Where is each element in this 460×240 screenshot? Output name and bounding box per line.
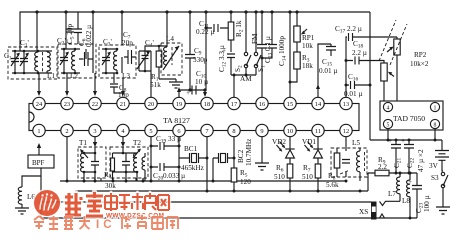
svg-text:T2: T2 <box>133 139 141 147</box>
capacitor C23 100u <box>412 173 422 218</box>
svg-text:15: 15 <box>287 101 293 108</box>
battery 3V <box>441 140 443 150</box>
wire tank top link <box>145 46 167 97</box>
svg-text:5.6k: 5.6k <box>326 181 339 189</box>
pin 4 <box>117 124 129 136</box>
svg-text:47 µ ×2: 47 µ ×2 <box>417 149 425 172</box>
capacitor C16 0.01u <box>346 81 370 89</box>
pin 22 <box>89 97 101 109</box>
svg-text:1: 1 <box>434 106 437 112</box>
wire pin6 drop <box>178 137 180 181</box>
wire TAD outputs down <box>388 129 435 141</box>
svg-text:0.01 µ: 0.01 µ <box>319 67 338 75</box>
svg-text:FM: FM <box>251 33 259 44</box>
svg-text:30k: 30k <box>105 182 116 190</box>
capacitor C4' variable <box>137 51 151 71</box>
inductor L4 tunable <box>161 12 182 75</box>
capacitor C9 330p <box>185 55 195 59</box>
svg-text:13: 13 <box>343 101 349 108</box>
pin 19 <box>173 97 185 109</box>
node ground bus A <box>60 180 346 182</box>
svg-text:+: + <box>388 137 392 145</box>
svg-text:1: 1 <box>37 128 40 135</box>
pin 3 <box>89 124 101 136</box>
potentiometer RP2b <box>383 62 385 102</box>
capacitor C17 2.2u <box>349 33 398 41</box>
svg-text:4: 4 <box>387 106 390 112</box>
pin 9 <box>256 124 268 136</box>
svg-text:RP1: RP1 <box>302 34 315 42</box>
svg-text:10: 10 <box>287 128 293 135</box>
potentiometer RP1 10k <box>296 12 298 52</box>
svg-text:510: 510 <box>274 173 285 181</box>
wire switch common to pin17 <box>231 75 256 97</box>
diode VD1 <box>317 137 319 164</box>
pin 16 <box>256 97 268 109</box>
wire BPF down <box>22 168 41 218</box>
capacitor C14 1000p <box>262 12 277 58</box>
watermark big chars halo <box>65 192 103 216</box>
svg-text:0.022 µ: 0.022 µ <box>85 25 93 47</box>
wire arrow up from pin19 <box>178 90 180 97</box>
svg-text:VD1: VD1 <box>302 138 316 146</box>
svg-text:20: 20 <box>148 101 154 108</box>
svg-text:9: 9 <box>260 128 263 135</box>
wire pin3 arrow into T1 <box>94 137 96 143</box>
inductor L5 boxed <box>331 137 367 181</box>
connector XS jack <box>371 202 377 220</box>
svg-text:11: 11 <box>315 128 321 135</box>
svg-text:2.2: 2.2 <box>378 163 387 171</box>
watermark big chars <box>65 192 103 216</box>
pin 6 <box>173 124 185 136</box>
svg-text:22: 22 <box>92 101 98 108</box>
pin 20 <box>145 97 157 109</box>
svg-text:12: 12 <box>343 128 349 135</box>
resistor R1 51k <box>158 67 160 79</box>
inductor L3 <box>116 49 118 73</box>
pin 18 <box>201 97 213 109</box>
svg-text:3V: 3V <box>429 162 439 170</box>
wire audio node y173 <box>368 172 417 174</box>
svg-text:21: 21 <box>120 101 126 108</box>
wire pin15 branch <box>289 12 291 97</box>
tuned circuit box L1 <box>8 47 57 79</box>
svg-text:BC1: BC1 <box>184 145 198 153</box>
wire pin2 drop <box>66 137 68 181</box>
diode VD2 <box>289 137 291 164</box>
pin 11 <box>312 124 324 136</box>
wire pin5 drop <box>150 137 152 181</box>
svg-text:510: 510 <box>302 173 313 181</box>
ground below L4 <box>169 79 183 88</box>
pin 13 <box>340 97 352 109</box>
pin 7 <box>201 124 213 136</box>
wire line to jack tip <box>41 201 371 203</box>
pin 24 <box>33 97 45 109</box>
svg-text:L8: L8 <box>402 197 410 205</box>
svg-text:VD2: VD2 <box>272 138 286 146</box>
capacitor C10 10u <box>179 86 205 95</box>
svg-text:T1: T1 <box>79 139 87 147</box>
svg-text:100 µ: 100 µ <box>423 195 431 212</box>
pin 2 <box>61 124 73 136</box>
wire vertical C9 branch <box>189 12 191 90</box>
resistor R6 510 <box>287 164 293 178</box>
svg-text:L2: L2 <box>70 72 78 80</box>
switch S3 <box>441 172 444 175</box>
wire C11 branch <box>206 12 228 90</box>
capacitor C12 3.3u <box>227 54 235 75</box>
svg-text:6: 6 <box>177 128 180 135</box>
wire top supply bus <box>20 12 370 51</box>
potentiometer RP2a <box>396 37 398 101</box>
svg-text:20p: 20p <box>122 39 133 47</box>
wire supply riser right <box>369 12 371 140</box>
wire RP2 gang dashed <box>379 20 396 61</box>
pin 17 <box>228 97 240 109</box>
svg-text:51k: 51k <box>150 81 161 89</box>
crystal BC1 465kHz <box>179 153 207 163</box>
pin 5 <box>145 124 157 136</box>
svg-text:L5: L5 <box>352 139 360 147</box>
svg-text:TAD 7050: TAD 7050 <box>393 114 425 123</box>
pin 1 <box>33 124 45 136</box>
ground below L6 <box>15 204 29 214</box>
transformer T2 <box>110 147 148 181</box>
op-amp U2 TAD7050 <box>380 101 443 130</box>
svg-text:XS: XS <box>359 208 368 216</box>
pin 14 <box>312 97 324 109</box>
svg-text:0.033 µ: 0.033 µ <box>163 172 185 180</box>
capacitor C5 20p <box>66 29 74 32</box>
capacitor C1 variable <box>11 51 19 73</box>
svg-text:BC2: BC2 <box>237 149 245 163</box>
watermark mid chars halo <box>105 193 169 211</box>
resistor R2 1k <box>230 12 232 52</box>
resistor R7 510 <box>315 164 321 178</box>
svg-text:RP2: RP2 <box>414 51 427 59</box>
svg-text:10.7MHz: 10.7MHz <box>245 139 253 166</box>
wire box outputs to IC pins with arrows <box>39 73 123 95</box>
capacitor C18 2.2u <box>346 57 384 65</box>
pin 10 <box>284 124 296 136</box>
filter BPF <box>28 155 54 168</box>
ground below S3 <box>436 207 450 214</box>
node ground bus B <box>75 190 368 192</box>
op-amp U1 TA8127 body <box>29 104 359 131</box>
svg-text:2: 2 <box>65 128 68 135</box>
inductor L8 <box>409 173 411 180</box>
ground pin9 <box>255 163 269 170</box>
svg-text:3: 3 <box>93 128 96 135</box>
svg-text:17: 17 <box>231 101 238 108</box>
capacitor C6 0.022u <box>74 12 82 44</box>
svg-text:+: + <box>408 178 412 186</box>
svg-text:5: 5 <box>149 128 152 135</box>
svg-text:TA 8127: TA 8127 <box>163 116 190 125</box>
capacitor C22 47u <box>404 140 414 173</box>
crystal BC2 10.7MHz <box>213 153 234 181</box>
transformer T1 <box>78 147 106 181</box>
svg-text:L1: L1 <box>47 72 55 80</box>
pin 1 <box>430 102 439 111</box>
svg-text:23: 23 <box>64 101 70 108</box>
wire pin14 arrow up <box>318 44 331 97</box>
pin 12 <box>340 124 352 136</box>
capacitor C3 <box>79 52 93 66</box>
svg-text:2.2 µ: 2.2 µ <box>352 49 367 57</box>
switch S1 <box>255 12 257 75</box>
inductor L1 windings <box>38 51 47 73</box>
watermark bottom row <box>34 216 90 229</box>
watermark logo circle <box>33 189 62 218</box>
capacitor C2' variable <box>60 49 68 73</box>
capacitor C3' variable <box>102 49 110 73</box>
resistor R3 18k <box>294 52 300 69</box>
wire supply rail y140 <box>370 139 442 141</box>
svg-text:IC: IC <box>96 219 116 231</box>
wire BPF to pin1 arrow <box>38 147 40 155</box>
svg-text:+: + <box>401 137 405 145</box>
svg-text:BPF: BPF <box>32 159 45 167</box>
inductor L7 <box>399 173 401 177</box>
inductor L2 <box>74 49 76 73</box>
watermark bottom row halo <box>34 215 178 229</box>
pin 23 <box>61 97 73 109</box>
svg-text:18k: 18k <box>302 62 313 70</box>
wire pin4 arrow into T2 <box>122 137 124 143</box>
inductor L6 <box>18 187 22 204</box>
pin 4 <box>383 102 392 111</box>
svg-text:8: 8 <box>434 123 437 129</box>
capacitor C8 10p <box>110 73 123 93</box>
svg-text:18: 18 <box>204 101 210 108</box>
wire bottom line <box>41 217 417 219</box>
capacitor C1' variable <box>20 51 28 73</box>
capacitor C19 33u <box>151 142 179 150</box>
svg-text:19: 19 <box>176 101 182 108</box>
tuned circuit box L2 <box>58 44 96 78</box>
svg-text:120: 120 <box>240 178 251 186</box>
capacitor C21 47u <box>391 140 401 173</box>
svg-text:L4: L4 <box>166 35 174 43</box>
svg-text:465kHz: 465kHz <box>181 164 204 172</box>
resistor R5 120 <box>233 137 235 191</box>
pin 15 <box>284 97 296 109</box>
svg-text:L7: L7 <box>388 190 396 198</box>
svg-text:5: 5 <box>387 123 390 129</box>
pin 8 <box>228 124 240 136</box>
capacitor C11 0.22u <box>214 24 218 32</box>
wire pin9 to ground <box>261 137 263 163</box>
svg-text:14: 14 <box>315 101 322 108</box>
capacitor C20 0.033u <box>151 163 179 171</box>
watermark mid chars <box>105 193 169 211</box>
pin 21 <box>117 97 129 109</box>
svg-text:24: 24 <box>36 101 43 108</box>
capacitor C13 0.1u <box>257 12 267 97</box>
wire bus B to R9 node <box>367 173 369 191</box>
capacitor C15 0.01u <box>326 44 336 56</box>
resistor R9 2.2 <box>375 170 389 176</box>
svg-text:10k×2: 10k×2 <box>410 60 429 68</box>
svg-text:8: 8 <box>232 128 235 135</box>
wire pin7 drop <box>206 137 208 191</box>
svg-text:10k: 10k <box>302 42 313 50</box>
pin 5 <box>383 119 392 128</box>
svg-text:S3: S3 <box>431 174 439 182</box>
capacitor C7 20p <box>128 50 132 64</box>
wire drops from bus to tuned boxes <box>37 12 122 59</box>
node bus junction dots <box>35 10 298 13</box>
wire T boxes to buses <box>84 178 143 181</box>
svg-text:16: 16 <box>259 101 265 108</box>
tuned circuit box L3 <box>99 45 136 78</box>
switch S2 <box>245 12 247 75</box>
wire pin13 riser <box>346 37 347 97</box>
pin 8 <box>430 119 439 128</box>
wire arrow down to pin18 <box>204 90 206 92</box>
